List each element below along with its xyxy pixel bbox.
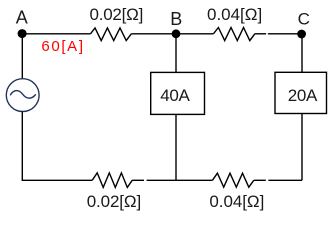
node A junction dot	[18, 29, 27, 38]
svg-text:60[A]: 60[A]	[41, 38, 83, 55]
resistor R4 0.04 ohm bottom	[212, 173, 253, 187]
wire to bottom right corner	[268, 179, 302, 181]
wire R1 to B	[131, 33, 176, 35]
resistor R1 0.02 ohm top	[91, 28, 132, 41]
svg-text:C: C	[298, 10, 310, 29]
AC source V1 circle	[6, 79, 39, 112]
svg-text:A: A	[16, 8, 28, 28]
wire 20A load down to bottom rail	[301, 114, 303, 181]
wire source down to bottom rail	[21, 112, 23, 181]
resistor R3 0.02 ohm bottom	[92, 173, 132, 188]
node B junction dot	[172, 29, 181, 38]
wire bottom rail left	[22, 179, 93, 181]
svg-text:B: B	[170, 9, 182, 29]
wire B to R2	[176, 33, 213, 35]
wire into node C	[268, 33, 302, 35]
node C junction dot	[297, 30, 306, 39]
AC source sine wave	[10, 91, 35, 99]
wire R4 right (gap at 266)	[254, 179, 266, 181]
load box 40A	[151, 72, 205, 114]
wire C down to 20A load	[301, 34, 303, 73]
svg-text:0.04[Ω]: 0.04[Ω]	[207, 5, 262, 24]
wire junction segment to R4	[147, 179, 213, 181]
wire R2 toward C (left part, gap at 266)	[255, 33, 266, 35]
load box 20A	[275, 72, 327, 113]
svg-text:0.02[Ω]: 0.02[Ω]	[90, 5, 144, 24]
svg-text:0.02[Ω]: 0.02[Ω]	[87, 192, 142, 211]
wire B down to 40A load	[175, 34, 177, 73]
wire R3 to junction (gap at 145)	[132, 179, 144, 181]
wire A to R1 (top rail)	[22, 33, 90, 35]
wire 40A load down to bottom rail	[175, 114, 177, 180]
svg-text:0.04[Ω]: 0.04[Ω]	[209, 192, 264, 211]
wire A down to source	[21, 34, 23, 79]
svg-text:20A: 20A	[288, 86, 318, 105]
resistor R2 0.04 ohm top	[213, 28, 254, 41]
svg-text:40A: 40A	[160, 86, 190, 105]
